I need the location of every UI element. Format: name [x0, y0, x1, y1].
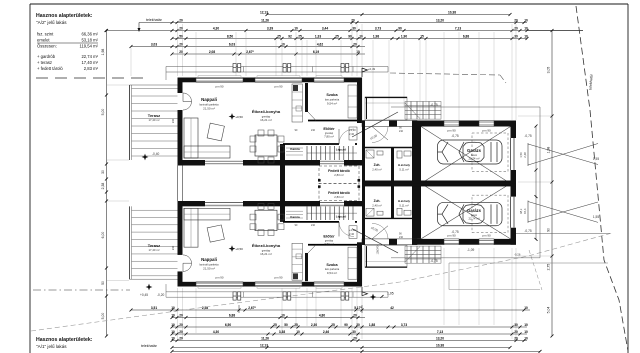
- svg-text:9,54 m²: 9,54 m²: [327, 102, 337, 106]
- svg-text:20: 20: [356, 323, 360, 327]
- svg-text:22,74 m²: 22,74 m²: [468, 216, 479, 220]
- svg-text:90: 90: [344, 323, 348, 327]
- svg-text:10: 10: [171, 306, 175, 310]
- svg-text:pm 90: pm 90: [482, 234, 491, 238]
- svg-text:+ fedett tároló: + fedett tároló: [37, 66, 63, 71]
- svg-text:4,80: 4,80: [319, 314, 325, 318]
- svg-text:2,67*: 2,67*: [246, 50, 254, 54]
- svg-text:3,44: 3,44: [322, 27, 328, 31]
- svg-text:4,62: 4,62: [317, 43, 323, 47]
- svg-text:53,18 m²: 53,18 m²: [81, 38, 98, 43]
- svg-text:90: 90: [348, 35, 352, 39]
- svg-text:12,13: 12,13: [260, 344, 268, 348]
- svg-text:10: 10: [296, 330, 300, 334]
- svg-text:7,80 m²: 7,80 m²: [324, 242, 334, 246]
- svg-text:22,74 m²: 22,74 m²: [81, 54, 98, 59]
- svg-text:25: 25: [331, 323, 335, 327]
- svg-text:20: 20: [179, 337, 183, 341]
- svg-text:10: 10: [359, 35, 363, 39]
- svg-text:10: 10: [524, 337, 528, 341]
- svg-text:4,30: 4,30: [213, 330, 219, 334]
- svg-text:+0,50: +0,50: [235, 247, 243, 251]
- svg-text:6,88: 6,88: [463, 35, 469, 39]
- svg-text:240: 240: [171, 245, 175, 250]
- svg-text:22,74 m²: 22,74 m²: [468, 156, 479, 160]
- svg-text:10: 10: [524, 19, 528, 23]
- svg-text:2,83 m²: 2,83 m²: [334, 195, 344, 199]
- svg-text:5,11 m²: 5,11 m²: [399, 168, 408, 172]
- svg-text:1,90: 1,90: [401, 35, 407, 39]
- svg-text:25: 25: [277, 35, 281, 39]
- svg-text:17,40 m²: 17,40 m²: [148, 118, 159, 122]
- svg-text:H.ét.hely: H.ét.hely: [398, 199, 410, 203]
- svg-text:10: 10: [524, 27, 528, 31]
- svg-text:Zuh.: Zuh.: [374, 199, 381, 203]
- svg-text:12,13: 12,13: [260, 11, 268, 15]
- svg-text:11,26: 11,26: [261, 337, 269, 341]
- svg-text:20: 20: [514, 19, 518, 23]
- svg-text:Lépcső: Lépcső: [336, 148, 347, 152]
- svg-text:17,40 m²: 17,40 m²: [148, 248, 159, 252]
- svg-text:6,03: 6,03: [229, 43, 235, 47]
- svg-text:50: 50: [284, 323, 288, 327]
- svg-text:Összesen:: Összesen:: [37, 44, 57, 49]
- svg-text:Kamra: Kamra: [290, 147, 300, 151]
- svg-text:telekhatár: telekhatár: [146, 18, 163, 22]
- svg-text:25: 25: [298, 35, 302, 39]
- svg-text:10,38: 10,38: [436, 344, 444, 348]
- svg-text:1,50: 1,50: [519, 209, 523, 215]
- svg-text:42: 42: [390, 306, 394, 310]
- svg-text:+ gardrób: + gardrób: [37, 54, 56, 59]
- svg-text:2,08: 2,08: [209, 50, 215, 54]
- svg-text:66,36 m²: 66,36 m²: [81, 32, 98, 37]
- svg-text:3,51: 3,51: [151, 306, 157, 310]
- svg-text:3,05: 3,05: [547, 67, 551, 74]
- svg-text:13,20: 13,20: [436, 337, 444, 341]
- svg-text:10: 10: [171, 330, 175, 334]
- svg-text:2,40 m²: 2,40 m²: [372, 168, 382, 172]
- svg-text:Lépcső: Lépcső: [336, 215, 347, 219]
- svg-text:6,50: 6,50: [225, 323, 231, 327]
- svg-text:13,20: 13,20: [436, 19, 444, 23]
- svg-text:10: 10: [171, 323, 175, 327]
- svg-text:pm 90: pm 90: [447, 129, 456, 133]
- svg-text:-1,09: -1,09: [467, 248, 474, 252]
- svg-text:90: 90: [398, 27, 402, 31]
- svg-text:-0,75: -0,75: [430, 103, 437, 107]
- svg-text:30: 30: [514, 323, 518, 327]
- svg-text:7,13: 7,13: [437, 330, 443, 334]
- svg-text:2,38: 2,38: [101, 183, 105, 190]
- svg-text:20: 20: [351, 19, 355, 23]
- svg-text:Hasznos alapterületek:: Hasznos alapterületek:: [36, 337, 93, 343]
- svg-text:telekhatár: telekhatár: [141, 344, 158, 348]
- svg-text:Előtér: Előtér: [323, 126, 335, 131]
- svg-text:10: 10: [294, 27, 298, 31]
- svg-text:25: 25: [335, 35, 339, 39]
- svg-text:2,40: 2,40: [349, 132, 355, 136]
- svg-text:emelet: emelet: [37, 38, 50, 43]
- svg-text:pm 90: pm 90: [215, 85, 223, 89]
- svg-text:11,26: 11,26: [261, 19, 269, 23]
- svg-text:4,30: 4,30: [213, 27, 219, 31]
- svg-text:-0,40: -0,40: [152, 152, 159, 156]
- svg-text:"A/2" jelű lakás: "A/2" jelű lakás: [36, 20, 67, 25]
- svg-text:-0,75: -0,75: [451, 230, 458, 234]
- svg-text:2,46: 2,46: [323, 330, 329, 334]
- svg-text:92: 92: [288, 35, 292, 39]
- svg-text:25: 25: [294, 323, 298, 327]
- svg-text:210: 210: [399, 130, 404, 133]
- svg-text:1,98: 1,98: [101, 49, 105, 56]
- svg-text:10: 10: [356, 50, 360, 54]
- svg-text:6,00: 6,00: [101, 232, 105, 239]
- svg-text:2,40 m²: 2,40 m²: [372, 204, 382, 208]
- svg-text:9,54 m²: 9,54 m²: [327, 271, 337, 275]
- svg-text:-0,75: -0,75: [524, 229, 531, 233]
- svg-text:+1,10: +1,10: [349, 128, 356, 132]
- svg-text:10: 10: [171, 337, 175, 341]
- svg-text:10: 10: [524, 330, 528, 334]
- svg-text:1,88: 1,88: [369, 323, 375, 327]
- svg-text:Hasznos alapterületek:: Hasznos alapterületek:: [36, 13, 93, 19]
- svg-text:pm 90: pm 90: [447, 234, 456, 238]
- svg-text:3,73: 3,73: [375, 27, 381, 31]
- svg-text:20: 20: [514, 337, 518, 341]
- svg-text:1,55: 1,55: [593, 157, 599, 161]
- svg-text:8,50: 8,50: [227, 35, 233, 39]
- svg-text:21,50 m²: 21,50 m²: [203, 107, 215, 111]
- svg-text:Garázs: Garázs: [467, 148, 482, 153]
- svg-text:210: 210: [311, 129, 316, 132]
- svg-text:"A/1" jelű lakás: "A/1" jelű lakás: [36, 344, 67, 349]
- svg-text:240: 240: [171, 118, 175, 123]
- svg-text:Nappali: Nappali: [201, 257, 217, 262]
- svg-text:5,17*: 5,17*: [354, 306, 362, 310]
- svg-text:Étkező-konyha: Étkező-konyha: [252, 109, 281, 114]
- svg-text:2,83 m²: 2,83 m²: [84, 66, 99, 71]
- svg-text:5,00: 5,00: [101, 313, 105, 320]
- svg-text:7,80 m²: 7,80 m²: [324, 134, 334, 138]
- svg-text:5,11 m²: 5,11 m²: [399, 204, 408, 208]
- svg-text:pm 90: pm 90: [215, 276, 223, 280]
- svg-text:5,04: 5,04: [547, 307, 551, 314]
- svg-text:1,33: 1,33: [315, 35, 321, 39]
- svg-text:+0,49: +0,49: [368, 67, 376, 71]
- svg-text:10: 10: [524, 35, 528, 39]
- svg-text:16,21 m²: 16,21 m²: [260, 252, 272, 256]
- svg-text:pm 90: pm 90: [274, 85, 282, 89]
- svg-text:Előtér: Előtér: [323, 234, 335, 239]
- svg-text:3,73: 3,73: [401, 323, 407, 327]
- svg-text:20: 20: [179, 19, 183, 23]
- svg-text:119,54 m²: 119,54 m²: [79, 44, 98, 49]
- svg-text:20: 20: [179, 314, 183, 318]
- svg-text:fsz. szint: fsz. szint: [37, 32, 54, 37]
- svg-text:2,83 m²: 2,83 m²: [334, 173, 344, 177]
- svg-text:10,38: 10,38: [448, 11, 456, 15]
- svg-text:10: 10: [524, 306, 528, 310]
- svg-text:2,40: 2,40: [349, 232, 355, 236]
- svg-text:30: 30: [101, 170, 105, 174]
- svg-text:210: 210: [399, 236, 404, 239]
- svg-text:pm 90: pm 90: [274, 276, 282, 280]
- svg-text:2,48: 2,48: [523, 152, 527, 158]
- svg-text:16,21 m²: 16,21 m²: [260, 118, 272, 122]
- svg-text:50: 50: [101, 281, 105, 285]
- svg-text:H.ét.hely: H.ét.hely: [398, 163, 410, 167]
- svg-text:Zuh.: Zuh.: [374, 163, 381, 167]
- svg-text:-0,75: -0,75: [524, 134, 531, 138]
- svg-text:20: 20: [353, 43, 357, 47]
- svg-text:5,00: 5,00: [101, 109, 105, 116]
- svg-text:10: 10: [524, 323, 528, 327]
- svg-text:-0,26: -0,26: [514, 253, 521, 257]
- svg-text:21,50 m²: 21,50 m²: [203, 267, 215, 271]
- svg-text:17,40 m²: 17,40 m²: [81, 60, 98, 65]
- svg-text:10: 10: [281, 43, 285, 47]
- svg-text:25: 25: [273, 323, 277, 327]
- svg-text:+0,50: +0,50: [235, 115, 243, 119]
- svg-text:210: 210: [311, 224, 316, 227]
- svg-text:3,39: 3,39: [267, 27, 273, 31]
- svg-text:2,67*: 2,67*: [248, 306, 256, 310]
- svg-text:7,13: 7,13: [455, 27, 461, 31]
- svg-text:Garázs: Garázs: [467, 208, 482, 213]
- svg-text:30: 30: [352, 27, 356, 31]
- svg-text:10: 10: [171, 314, 175, 318]
- svg-text:2,48: 2,48: [523, 209, 527, 215]
- svg-text:3,03: 3,03: [151, 43, 157, 47]
- svg-text:Szoba: Szoba: [326, 93, 338, 97]
- svg-text:90: 90: [547, 228, 551, 232]
- svg-text:Nappali: Nappali: [201, 97, 217, 102]
- svg-text:+ terasz: + terasz: [37, 60, 52, 65]
- svg-text:20: 20: [514, 330, 518, 334]
- svg-text:-0,20: -0,20: [157, 293, 164, 297]
- svg-text:+1,10: +1,10: [349, 228, 356, 232]
- svg-text:20: 20: [353, 337, 357, 341]
- svg-text:-0,75: -0,75: [430, 259, 437, 263]
- svg-text:30: 30: [352, 330, 356, 334]
- svg-text:15: 15: [420, 35, 424, 39]
- svg-text:+0,45: +0,45: [140, 293, 148, 297]
- svg-text:pm 90: pm 90: [482, 129, 491, 133]
- svg-text:10: 10: [281, 314, 285, 318]
- svg-text:20: 20: [179, 330, 183, 334]
- svg-text:20: 20: [353, 314, 357, 318]
- svg-text:6,88: 6,88: [229, 314, 235, 318]
- svg-text:138/240: 138/240: [377, 245, 380, 254]
- svg-text:Kamra: Kamra: [290, 215, 300, 219]
- svg-text:Étkező-konyha: Étkező-konyha: [252, 243, 281, 248]
- svg-text:2,30: 2,30: [311, 323, 317, 327]
- svg-text:3,38: 3,38: [279, 330, 285, 334]
- svg-text:1,98: 1,98: [373, 35, 379, 39]
- svg-text:Szoba: Szoba: [326, 263, 338, 267]
- svg-text:-0,75: -0,75: [451, 134, 458, 138]
- svg-text:1,55: 1,55: [593, 215, 599, 219]
- svg-text:2,75: 2,75: [547, 264, 551, 271]
- svg-text:20: 20: [179, 323, 183, 327]
